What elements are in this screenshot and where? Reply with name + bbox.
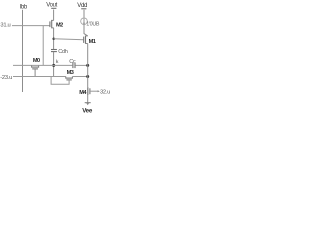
- wire Vdd drop: [83, 10, 85, 18]
- current source I1: [81, 18, 100, 28]
- svg-text:32.u: 32.u: [100, 90, 110, 96]
- node -23.u label: [0, 75, 12, 81]
- svg-text:31.u: 31.u: [0, 23, 10, 29]
- wire output column: [87, 44, 89, 88]
- wire M4 source down: [87, 95, 89, 102]
- svg-text:M3: M3: [67, 70, 74, 76]
- svg-text:Vdd: Vdd: [77, 3, 87, 9]
- svg-text:Cdh: Cdh: [58, 49, 68, 55]
- wire Vout drop: [53, 10, 55, 21]
- svg-text:M0: M0: [33, 58, 40, 64]
- node junction dot C: [86, 64, 89, 67]
- wire low rail left: [13, 76, 66, 78]
- svg-text:M4: M4: [79, 90, 87, 96]
- transistor M3: [51, 70, 74, 84]
- transistor M0: [31, 58, 40, 76]
- svg-text:M1: M1: [89, 39, 96, 45]
- node junction dot A: [52, 38, 55, 41]
- wire mid rail left: [13, 64, 72, 66]
- transistor M2: [50, 20, 63, 29]
- wire low rail right: [72, 76, 87, 78]
- transistor M1: [84, 36, 96, 46]
- wire mirror drop: [42, 26, 44, 66]
- capacitor Cc: [69, 59, 76, 68]
- wire node A to M1 gate: [54, 38, 84, 41]
- svg-text:M2: M2: [56, 23, 63, 29]
- capacitor Cdh: [51, 49, 68, 55]
- node Vout label: [46, 3, 57, 9]
- power Vdd label: [77, 3, 87, 9]
- node 31.u label: [0, 23, 10, 29]
- wire mid rail right: [75, 64, 87, 66]
- svg-text:1'0UB: 1'0UB: [86, 22, 100, 28]
- transistor M4: [79, 87, 110, 96]
- node Ibias label: [20, 5, 28, 11]
- node junction dot D: [86, 75, 89, 78]
- wire gate row to M2: [12, 25, 50, 27]
- wire source to M1: [84, 25, 88, 36]
- wire Ibias vertical: [22, 10, 24, 92]
- power Vee terminal: [82, 103, 93, 115]
- node junction dot B: [52, 64, 55, 67]
- svg-text:-23.u: -23.u: [0, 75, 12, 81]
- svg-text:k: k: [56, 59, 59, 65]
- svg-text:Ibb: Ibb: [20, 5, 28, 11]
- svg-text:Vout: Vout: [46, 3, 57, 9]
- svg-text:Vee: Vee: [82, 107, 93, 114]
- wire M2 source down: [53, 28, 55, 49]
- wire cap to rail: [53, 52, 55, 77]
